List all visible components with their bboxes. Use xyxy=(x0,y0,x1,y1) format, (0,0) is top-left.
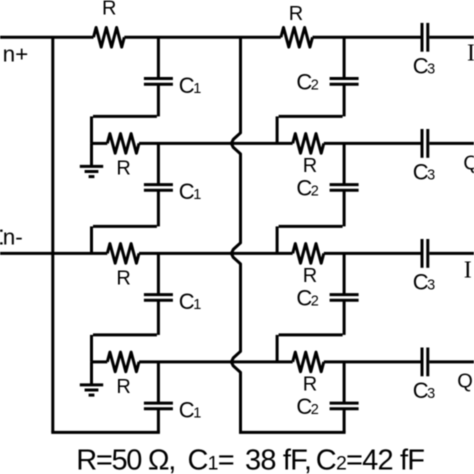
svg-text:C2: C2 xyxy=(296,286,318,311)
svg-text:C1=: C1= xyxy=(188,445,234,474)
svg-text:C1: C1 xyxy=(179,179,201,204)
svg-text:C3: C3 xyxy=(413,269,435,294)
svg-text:C3: C3 xyxy=(413,53,435,78)
svg-text:R: R xyxy=(289,3,303,25)
svg-text:C3: C3 xyxy=(413,378,435,403)
svg-text:R: R xyxy=(303,373,317,395)
svg-text:n+: n+ xyxy=(3,42,29,67)
svg-text:C2=42 fF: C2=42 fF xyxy=(316,445,425,474)
svg-text:R: R xyxy=(102,0,116,20)
svg-text:Q: Q xyxy=(463,152,474,174)
svg-text:C1: C1 xyxy=(179,73,201,98)
svg-text:C1: C1 xyxy=(179,398,201,423)
svg-text:R: R xyxy=(303,265,317,287)
svg-text:38 fF,: 38 fF, xyxy=(245,445,311,474)
svg-text:R=50 Ω,: R=50 Ω, xyxy=(76,445,175,474)
svg-text:C2: C2 xyxy=(296,394,318,419)
svg-text:n-: n- xyxy=(3,224,23,249)
svg-text:R: R xyxy=(116,376,130,398)
svg-text:C3: C3 xyxy=(413,159,435,184)
svg-text:C1: C1 xyxy=(179,289,201,314)
svg-text:Q: Q xyxy=(457,370,473,392)
svg-text:I: I xyxy=(467,40,474,66)
svg-text:R: R xyxy=(303,155,317,177)
svg-text:C2: C2 xyxy=(296,176,318,201)
svg-text:C2: C2 xyxy=(296,70,318,95)
svg-text:I: I xyxy=(464,258,472,284)
svg-text:R: R xyxy=(116,268,130,290)
svg-text:R: R xyxy=(116,158,130,180)
